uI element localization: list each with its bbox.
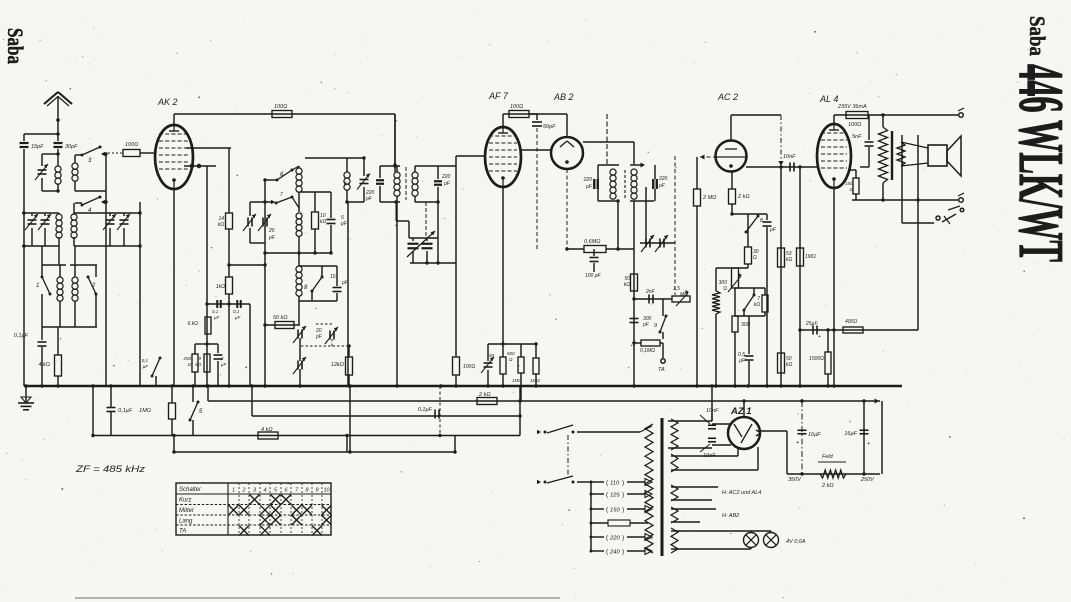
svg-text:Kurz: Kurz bbox=[179, 498, 191, 504]
svg-text:2 kΩ: 2 kΩ bbox=[737, 194, 750, 200]
svg-text:220: 220 bbox=[658, 176, 668, 182]
svg-text:1500Ω: 1500Ω bbox=[809, 356, 824, 362]
svg-text:110: 110 bbox=[610, 480, 620, 486]
svg-text:30pF: 30pF bbox=[65, 144, 78, 150]
svg-text:100Ω: 100Ω bbox=[125, 142, 138, 148]
svg-text:AC 2: AC 2 bbox=[717, 92, 738, 102]
svg-text:15pF: 15pF bbox=[31, 144, 44, 150]
svg-text:2: 2 bbox=[241, 488, 245, 494]
svg-text:kΩ: kΩ bbox=[754, 302, 761, 308]
svg-text:2 kΩ: 2 kΩ bbox=[821, 483, 834, 489]
svg-text:2: 2 bbox=[91, 283, 96, 289]
svg-text:0,1µF: 0,1µF bbox=[418, 407, 433, 413]
svg-text:Saba: Saba bbox=[1025, 16, 1050, 56]
svg-text:9: 9 bbox=[315, 488, 318, 494]
svg-text:Ω: Ω bbox=[188, 362, 192, 367]
svg-text:): ) bbox=[622, 491, 624, 498]
svg-text:220: 220 bbox=[583, 177, 593, 183]
svg-text:0,1: 0,1 bbox=[233, 309, 240, 314]
svg-text:500: 500 bbox=[507, 351, 515, 356]
svg-text:25: 25 bbox=[268, 228, 275, 234]
svg-text:kΩ: kΩ bbox=[786, 362, 793, 368]
svg-text:AL 4: AL 4 bbox=[819, 94, 838, 104]
svg-text:pF: pF bbox=[642, 322, 650, 328]
svg-text:H: AC2 und AL4: H: AC2 und AL4 bbox=[722, 490, 761, 496]
svg-text:15: 15 bbox=[330, 274, 336, 280]
svg-text:MΩ: MΩ bbox=[680, 292, 688, 298]
svg-text:16µF: 16µF bbox=[844, 431, 857, 437]
svg-text:Feld: Feld bbox=[822, 454, 834, 460]
svg-text:AK 2: AK 2 bbox=[157, 97, 178, 107]
svg-text:1MΩ: 1MΩ bbox=[805, 254, 816, 260]
svg-text:4 kΩ: 4 kΩ bbox=[261, 427, 273, 433]
svg-text:100Ω: 100Ω bbox=[510, 104, 523, 110]
svg-text:): ) bbox=[622, 506, 624, 513]
svg-text:TA: TA bbox=[658, 367, 665, 373]
svg-text:2 kΩ: 2 kΩ bbox=[478, 392, 491, 398]
svg-text:8: 8 bbox=[760, 218, 763, 224]
svg-text:4V 0,6A: 4V 0,6A bbox=[786, 539, 806, 545]
svg-text:pF: pF bbox=[315, 334, 323, 340]
svg-text:AB 2: AB 2 bbox=[553, 92, 574, 102]
svg-text:1kΩ: 1kΩ bbox=[216, 284, 225, 290]
svg-text:µF: µF bbox=[214, 315, 220, 320]
svg-text:ZF = 485 kHz: ZF = 485 kHz bbox=[75, 464, 146, 474]
svg-text:AZ 1: AZ 1 bbox=[730, 406, 752, 417]
svg-text:kΩ: kΩ bbox=[624, 282, 631, 288]
svg-text:350V: 350V bbox=[788, 477, 802, 483]
svg-text:µF: µF bbox=[770, 227, 777, 233]
svg-text:0,1MΩ: 0,1MΩ bbox=[640, 348, 655, 354]
svg-text:pF: pF bbox=[268, 235, 276, 241]
svg-text:125: 125 bbox=[610, 492, 620, 498]
svg-text:Ω: Ω bbox=[509, 357, 513, 362]
svg-text:10: 10 bbox=[323, 488, 330, 494]
svg-text:µF: µF bbox=[739, 358, 746, 364]
svg-text:100Ω: 100Ω bbox=[848, 122, 861, 128]
svg-text:220: 220 bbox=[441, 174, 451, 180]
svg-text:12kΩ: 12kΩ bbox=[331, 362, 344, 368]
svg-text:16µF: 16µF bbox=[808, 432, 821, 438]
svg-text:10nF: 10nF bbox=[783, 154, 796, 160]
svg-text:): ) bbox=[622, 548, 624, 555]
svg-text:250V: 250V bbox=[860, 477, 875, 483]
svg-text:kΩ: kΩ bbox=[218, 222, 225, 228]
svg-text:10nF: 10nF bbox=[706, 408, 719, 414]
svg-text:pF: pF bbox=[340, 221, 348, 227]
svg-text:0,1µF: 0,1µF bbox=[14, 333, 29, 339]
svg-text:1MΩ: 1MΩ bbox=[530, 378, 540, 383]
svg-text:AF 7: AF 7 bbox=[488, 91, 509, 101]
svg-text:2 MΩ: 2 MΩ bbox=[702, 195, 716, 201]
svg-text:µF: µF bbox=[235, 315, 241, 320]
svg-text:150: 150 bbox=[610, 507, 620, 513]
svg-text:Ω: Ω bbox=[850, 187, 854, 192]
svg-text:50: 50 bbox=[489, 353, 495, 358]
svg-text:0,1: 0,1 bbox=[142, 358, 149, 363]
svg-text:Ω: Ω bbox=[753, 255, 757, 261]
svg-text:pF: pF bbox=[585, 184, 593, 190]
svg-text:4: 4 bbox=[263, 488, 266, 494]
svg-text:Lang: Lang bbox=[179, 519, 193, 525]
svg-text:0,6MΩ: 0,6MΩ bbox=[584, 239, 600, 245]
svg-text:100Ω: 100Ω bbox=[463, 364, 475, 370]
svg-text:Mittel: Mittel bbox=[179, 508, 194, 514]
svg-text:20: 20 bbox=[343, 180, 348, 186]
svg-text:pF: pF bbox=[658, 183, 666, 189]
svg-text:pF: pF bbox=[365, 196, 373, 202]
svg-text:0,1: 0,1 bbox=[212, 309, 219, 314]
svg-text:H: AB2: H: AB2 bbox=[722, 513, 739, 519]
svg-text:400Ω: 400Ω bbox=[845, 319, 857, 325]
svg-text:Ω: Ω bbox=[723, 286, 727, 292]
svg-text:50 kΩ: 50 kΩ bbox=[273, 315, 288, 321]
svg-text:kΩ: kΩ bbox=[320, 219, 327, 225]
svg-text:240: 240 bbox=[609, 549, 620, 555]
svg-text:6 kΩ: 6 kΩ bbox=[188, 321, 199, 327]
svg-text:4 kΩ: 4 kΩ bbox=[38, 362, 50, 368]
svg-text:+: + bbox=[818, 334, 821, 340]
svg-text:Saba: Saba bbox=[3, 28, 28, 64]
svg-text:0,1µF: 0,1µF bbox=[118, 408, 133, 414]
svg-text:µF: µF bbox=[221, 362, 227, 367]
svg-text:100Ω: 100Ω bbox=[274, 104, 287, 110]
svg-text:235V 36mA: 235V 36mA bbox=[837, 104, 867, 110]
svg-text:1: 1 bbox=[36, 283, 39, 289]
svg-text:1: 1 bbox=[232, 488, 235, 494]
svg-text:7: 7 bbox=[280, 192, 283, 198]
svg-text:50pF: 50pF bbox=[543, 124, 556, 130]
svg-text:1MΩ: 1MΩ bbox=[512, 378, 522, 383]
svg-text:100 pF: 100 pF bbox=[585, 273, 602, 279]
svg-text:): ) bbox=[622, 534, 624, 541]
svg-text:2nF: 2nF bbox=[645, 289, 656, 295]
svg-text:µF: µF bbox=[143, 364, 149, 369]
svg-text:250: 250 bbox=[182, 356, 191, 361]
svg-text:220: 220 bbox=[609, 535, 620, 541]
svg-text:1MΩ: 1MΩ bbox=[139, 408, 151, 414]
svg-text:TA: TA bbox=[179, 529, 186, 535]
svg-text:9: 9 bbox=[654, 323, 657, 329]
svg-text:25µF: 25µF bbox=[805, 321, 818, 327]
svg-text:446 WLK/WT: 446 WLK/WT bbox=[1006, 64, 1071, 262]
svg-text:5nF: 5nF bbox=[852, 134, 862, 140]
svg-text:Schalter: Schalter bbox=[179, 487, 202, 493]
svg-text:kΩ: kΩ bbox=[786, 257, 793, 263]
svg-text:pF: pF bbox=[443, 181, 451, 187]
svg-text:150: 150 bbox=[845, 181, 853, 186]
svg-text:2: 2 bbox=[220, 356, 224, 361]
svg-text:): ) bbox=[622, 479, 624, 486]
